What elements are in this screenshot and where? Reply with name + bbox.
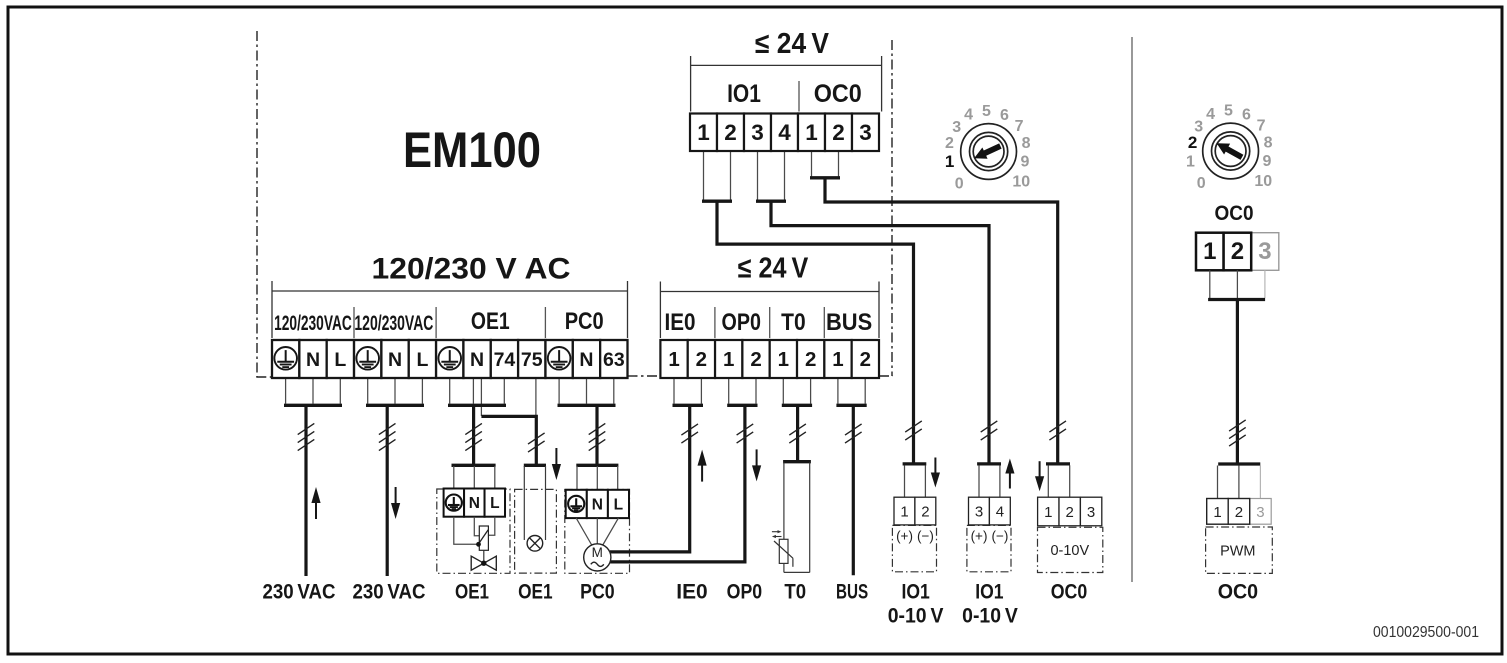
svg-text:10: 10 [1254,173,1272,190]
fork bar OC0 right [1208,298,1265,301]
group separators lower 24V row [715,307,824,338]
fork bar group PC0 [558,404,616,407]
svg-text:≤ 24 V: ≤ 24 V [755,28,830,60]
cable marks IE0 [681,424,698,443]
svg-text:4: 4 [778,120,791,145]
fork bar IO1 1-2 [702,200,732,203]
connector cap OE1 valve [452,464,496,467]
terminal boxes OC0 PWM [1207,499,1229,525]
ground symbol PC0 strip [568,496,584,512]
fork wire OE1 75-to-lamp [535,378,537,415]
fork wire OE1 N-to-lamp [480,378,482,416]
cable marks IO1 1-2 cable [905,421,922,440]
arrow down IO1 #1 [931,458,940,488]
ground terminal symbol at x=559 [548,347,571,370]
svg-text:1: 1 [778,348,789,371]
fork bar group 120/230VAC #2 [366,404,424,407]
terminal strip PC0 [566,490,587,518]
wire OE1 lamp feed [481,416,536,465]
svg-text:8: 8 [1264,135,1273,152]
lamp circle with cross [527,536,543,552]
fork wires OC0 terminals 1-2 top row [811,151,813,176]
svg-text:3: 3 [952,119,961,136]
svg-text:M: M [592,545,603,560]
cable marks 230 VAC #1 [298,423,315,450]
svg-text:9: 9 [1021,154,1030,171]
svg-text:74: 74 [494,349,516,371]
svg-text:PWM: PWM [1220,543,1255,559]
cable marks OC0 PWM [1229,420,1246,446]
wire T0 feed [796,405,799,462]
fork bar OC0 1-2 [810,176,840,179]
svg-text:OC0: OC0 [814,80,862,108]
ground symbol OE1 strip [446,495,462,511]
cable marks BUS [845,424,862,443]
T0 sensor body [784,463,810,573]
svg-text:2: 2 [1066,504,1074,521]
svg-text:N: N [592,496,603,513]
svg-text:120/230VAC: 120/230VAC [274,312,352,335]
wire 230 VAC #1 [304,405,307,576]
svg-text:OP0: OP0 [722,309,761,336]
bracket 120/230 V AC [272,281,628,338]
connector cap IO1 0-10V #2 [977,462,1001,465]
svg-text:8: 8 [1022,135,1031,152]
svg-text:N: N [469,495,480,512]
wire PC0 feed [595,405,598,465]
fork wires group PC0 [558,378,560,404]
fork wires OP0 [728,378,730,404]
svg-text:OE1: OE1 [518,581,553,604]
group separator IO1/OC0 [798,81,800,112]
connector cap OC0 0-10V [1046,462,1070,465]
svg-text:L: L [490,495,499,512]
fork wires group OE1 [449,378,451,404]
arrow up IO1 #2 [1005,459,1014,489]
rotary switch S2 scale numbers [1186,103,1273,193]
valve center dot [481,561,486,566]
svg-text:1: 1 [1186,154,1195,171]
svg-text:3: 3 [859,120,872,145]
ground terminal symbol at x=286 [274,347,297,370]
connector wires OC0 0-10V [1047,465,1049,497]
svg-text:T0: T0 [781,309,806,336]
svg-text:3: 3 [1087,504,1095,521]
EM100 enclosure dash-dot boundary left [256,31,258,377]
connector cap T0 [783,460,811,463]
cable marks OE1 valve [465,423,482,450]
terminal block OC0 right: terminals 1 2 [1196,233,1224,271]
component box OC0 PWM dash-dot outline [1206,527,1273,573]
terminal boxes IO1 #2 [969,497,990,525]
fork bar IE0 [673,404,704,407]
fork bar group OE1 [448,404,506,407]
svg-text:IO1: IO1 [901,581,930,604]
svg-text:1: 1 [1213,504,1221,521]
terminal block OC0 right: terminal 3 gray [1251,233,1279,271]
rotary switch S1 pointer arrow [971,140,1003,163]
svg-text:(+): (+) [896,529,913,544]
rotary switch S1 knob [961,124,1017,180]
svg-text:1: 1 [697,120,710,145]
connector cap PC0 [576,464,618,467]
thermistor symbol T0 [779,539,788,563]
svg-text:OE1: OE1 [471,308,510,335]
bracket upper 24V [691,56,882,112]
svg-text:2: 2 [696,348,707,371]
svg-text:EM100: EM100 [403,122,541,178]
cable marks T0 [789,424,806,443]
arrow down OC0 0-10V [1035,461,1044,491]
component box OC0 0-10V dash-dot outline [1038,527,1103,572]
fork wires IE0 [673,378,675,404]
fork wires group 120/230VAC #2 [367,378,369,404]
cable marks OP0 [737,424,754,443]
component box IO1 0-10V #1 dash-dot outline [892,525,936,571]
terminal box 3 gray PWM [1250,499,1272,525]
connector wires PC0 [576,466,578,490]
svg-text:0: 0 [1197,175,1206,192]
svg-text:0-10 V: 0-10 V [962,604,1018,627]
svg-text:OC0: OC0 [1051,581,1088,604]
wire IE0 to pump [610,405,690,552]
component box IO1 0-10V #2 dash-dot outline [967,525,1011,571]
svg-text:1: 1 [723,348,734,371]
arrow up IE0 [698,450,707,482]
svg-text:BUS: BUS [826,309,872,336]
connector wires OC0 PWM [1217,466,1219,499]
component box OE1 lamp dash-dot outline [515,489,557,573]
svg-text:N: N [579,349,593,371]
svg-text:N: N [388,349,402,371]
svg-text:0-10V: 0-10V [1050,543,1089,559]
svg-text:4: 4 [1206,106,1215,123]
svg-text:1: 1 [945,152,954,171]
terminal row 120/230 V AC [272,340,627,378]
svg-text:6: 6 [1242,107,1251,124]
svg-text:IO1: IO1 [727,80,761,108]
wire BUS [852,405,855,575]
cable marks OC0 cable [1049,421,1066,440]
svg-text:1: 1 [805,120,818,145]
svg-text:1: 1 [900,504,908,521]
svg-text:0010029500-001: 0010029500-001 [1373,624,1479,641]
svg-text:IE0: IE0 [665,309,696,336]
ground terminal symbol at x=368 [356,347,379,370]
fork bar IO1 3-4 [756,200,786,203]
wire 230 VAC #2 [386,405,389,576]
wire OC0 1-2 to bottom connector [825,178,1058,464]
rotary switch S2 pointer arrow [1214,138,1245,163]
svg-text:5: 5 [982,103,991,120]
group separators 120/230 V AC row [354,307,545,338]
rotary switch S1 scale numbers [945,103,1031,193]
connector cap OC0 PWM [1218,462,1260,465]
component box OE1 valve dash-dot outline [437,489,510,573]
cable marks 230 VAC #2 [379,423,396,450]
svg-text:1: 1 [1203,238,1216,265]
terminal boxes IO1 #1 [894,497,915,525]
svg-text:2: 2 [1231,238,1244,265]
svg-text:230 VAC: 230 VAC [263,581,336,604]
valve actuator lever diagonal [479,530,488,544]
wire IO1 3-4 to bottom connector [771,201,989,464]
svg-text:6: 6 [1000,107,1009,124]
svg-text:PC0: PC0 [580,581,615,604]
svg-text:63: 63 [603,349,625,371]
valve actuator wiring N [474,517,479,536]
valve bowtie symbol [471,556,496,570]
connector cap OE1 lamp [524,464,546,467]
svg-text:L: L [416,349,428,371]
svg-text:3: 3 [1258,238,1271,265]
svg-text:10: 10 [1012,174,1030,191]
svg-text:2: 2 [724,120,737,145]
valve stem [483,550,485,563]
svg-text:120/230VAC: 120/230VAC [354,312,433,335]
svg-text:0: 0 [955,176,964,193]
svg-text:3: 3 [975,504,983,521]
svg-text:OE1: OE1 [455,581,489,604]
pump fan-out wires [576,518,592,545]
svg-text:T0: T0 [784,581,806,604]
pump motor tilde [591,562,604,566]
svg-text:7: 7 [1015,118,1024,135]
svg-text:1: 1 [668,348,679,371]
wire IO1 1-2 to bottom connector [717,201,914,464]
svg-text:(+): (+) [971,529,988,544]
svg-text:9: 9 [1263,153,1272,170]
fork bar group 120/230VAC #1 [284,404,342,407]
svg-text:OP0: OP0 [727,581,763,604]
svg-text:230 VAC: 230 VAC [353,581,426,604]
connector wires OE1 valve [453,466,455,489]
svg-text:L: L [614,496,623,513]
connector cap IO1 0-10V #1 [903,462,927,465]
svg-text:≤ 24 V: ≤ 24 V [738,253,809,285]
connector wires IO1 #2 [978,465,980,497]
arrow down 230 VAC #2 [391,487,400,519]
ground terminal symbol at x=450 [438,347,461,370]
svg-text:2: 2 [921,504,929,521]
valve junction dot [476,542,481,547]
svg-text:2: 2 [945,135,954,152]
fork bar BUS [836,404,866,407]
arrow up 230 VAC #1 [311,487,320,519]
fork wires IO1 terminals 3-4 [757,151,759,200]
fork wires BUS [837,378,839,404]
valve actuator box [479,526,488,550]
cable marks IO1 3-4 cable [981,421,998,440]
terminal strip OE1 valve [444,489,464,517]
terminal boxes OC0 0-10V [1038,497,1059,526]
svg-text:75: 75 [521,349,543,371]
arrow down OE1 lamp [552,448,561,480]
svg-text:N: N [306,349,320,371]
svg-text:4: 4 [996,504,1004,521]
svg-text:(−): (−) [991,529,1008,544]
svg-text:2: 2 [750,348,761,371]
svg-text:5: 5 [1224,103,1233,120]
svg-text:2: 2 [832,120,845,145]
terminal row lower 24V IE0 OP0 T0 BUS [660,340,879,378]
svg-text:IO1: IO1 [975,581,1004,604]
svg-text:3: 3 [751,120,764,145]
svg-text:L: L [334,349,346,371]
terminal row upper IO1 OC0 [690,114,879,152]
svg-text:2: 2 [1235,504,1243,521]
svg-text:OC0: OC0 [1215,202,1254,225]
EM100 enclosure dash-dot boundary right [891,40,893,376]
svg-text:2: 2 [805,348,816,371]
svg-text:IE0: IE0 [676,581,707,604]
valve actuator wiring ground [454,517,477,545]
svg-text:(−): (−) [917,529,934,544]
wire OP0 to pump [610,405,745,562]
wire OC0 PWM cable [1236,300,1239,464]
valve actuator wiring L [488,517,494,536]
cable marks PC0 [589,423,606,450]
svg-text:0-10 V: 0-10 V [888,604,944,627]
wire OE1 valve feed [472,405,475,465]
svg-text:7: 7 [1257,118,1266,135]
svg-text:BUS: BUS [836,581,868,604]
lamp tube lines [523,466,525,540]
svg-text:1: 1 [832,348,843,371]
fork bar OP0 [727,404,757,407]
svg-text:PC0: PC0 [565,308,604,335]
rotary switch S2 knob [1203,123,1259,179]
bracket lower 24V [660,282,879,339]
svg-text:4: 4 [964,107,973,124]
svg-text:N: N [470,349,484,371]
svg-text:120/230 V AC: 120/230 V AC [372,253,571,286]
svg-text:3: 3 [1256,504,1264,521]
pump motor circle [584,544,611,571]
cable marks OE1 lamp [528,433,545,452]
svg-text:2: 2 [1188,133,1197,152]
arrow down OP0 [752,449,761,481]
fork wires group 120/230VAC #1 [285,378,287,404]
fork wires OC0 right [1209,270,1211,298]
svg-text:OC0: OC0 [1218,581,1258,604]
section divider line [1131,37,1133,582]
fork wires IO1 terminals 1-2 [703,151,705,200]
svg-text:1: 1 [1044,504,1052,521]
thermistor arrows [772,530,782,538]
fork wires T0 [782,378,784,404]
svg-text:2: 2 [860,348,871,371]
fork bar T0 [782,404,812,407]
connector wires IO1 #1 [904,465,906,497]
EM100 enclosure dash-dot boundary bottom segment [628,375,661,377]
component box PC0 pump dash-dot outline [565,490,630,574]
